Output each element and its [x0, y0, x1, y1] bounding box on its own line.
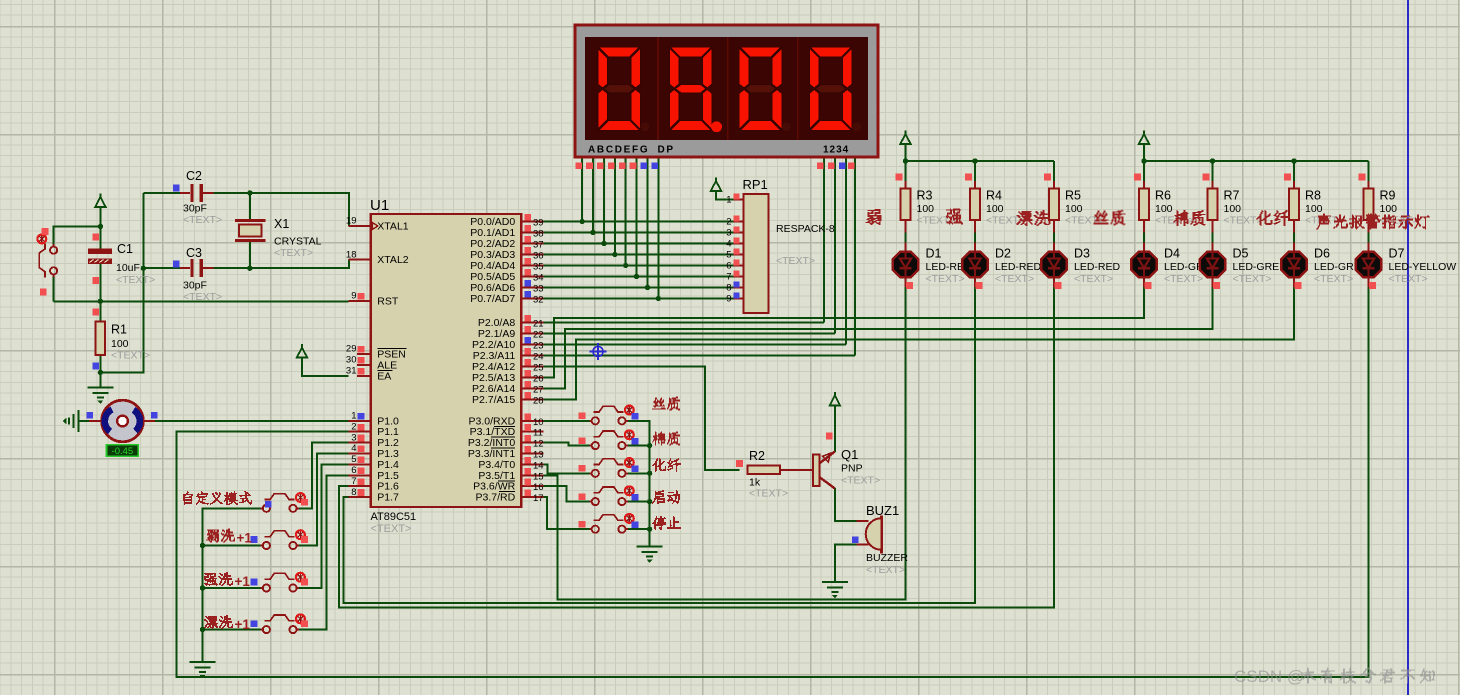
- svg-text:<TEXT>: <TEXT>: [111, 350, 150, 362]
- U1 pin 31 EA: [346, 366, 392, 383]
- svg-text:28: 28: [533, 395, 544, 406]
- wire display segment B column to P0.1 row: [592, 157, 594, 233]
- svg-text:2: 2: [726, 217, 731, 228]
- button 棉质 pin state squares: [579, 437, 586, 444]
- svg-text:<TEXT>: <TEXT>: [841, 475, 880, 487]
- ground below buzzer: [822, 582, 848, 598]
- wire display segment C column to P0.2 row: [603, 157, 605, 244]
- wire D3 cathode to U1 P1.6: [339, 287, 1054, 607]
- svg-text:1: 1: [351, 411, 356, 422]
- svg-text:<TEXT>: <TEXT>: [1224, 215, 1263, 227]
- display segment pin state squares: [575, 162, 854, 169]
- wire R4 bottom to D2 anode: [974, 230, 976, 244]
- svg-text:R7: R7: [1224, 189, 1240, 203]
- svg-text:RP1: RP1: [743, 177, 768, 192]
- svg-text:3: 3: [351, 432, 356, 443]
- U1 pin 39 P0.0/AD0: [470, 214, 543, 229]
- wire display digit 1 column to P2.0: [823, 157, 825, 322]
- D2 pin state square: [976, 282, 983, 289]
- wire U1 P0.1 row to RP1 pin 3: [543, 232, 733, 234]
- watermark CSDN: [1234, 667, 1435, 686]
- R4 pin state square: [965, 174, 972, 181]
- U1 pin 35 P0.4/AD4: [470, 258, 543, 273]
- svg-text:16: 16: [533, 482, 544, 493]
- U1 pin 6 P1.5: [349, 465, 400, 482]
- wire U1 P0.6 row to RP1 pin 8: [543, 287, 733, 289]
- BUZ1 pin state square: [852, 536, 859, 543]
- LED D3 LED-RED: [1041, 243, 1066, 287]
- svg-text:D2: D2: [995, 247, 1011, 261]
- U1 pin 14 P3.4/T0: [478, 457, 543, 472]
- svg-text:100: 100: [111, 338, 129, 350]
- Q1 pin state square: [826, 433, 833, 440]
- svg-text:17: 17: [533, 493, 544, 504]
- resistor R4 100: [970, 188, 980, 220]
- wire U1 P3.0 to silk button: [543, 420, 591, 422]
- LED D4 LED-GREEN: [1131, 243, 1156, 287]
- svg-text:+1: +1: [235, 617, 251, 632]
- svg-text:<TEXT>: <TEXT>: [1233, 273, 1272, 285]
- resistor R3 100 leads: [905, 181, 907, 188]
- wire display segment E column to P0.4 row: [625, 157, 627, 266]
- U1 pin 30 ALE: [346, 355, 397, 372]
- wire VCC to Q1 emitter: [834, 406, 836, 453]
- resistor R1 100: [96, 322, 106, 356]
- svg-text:D3: D3: [1074, 247, 1090, 261]
- svg-text:26: 26: [533, 373, 544, 384]
- wire button right terminal to rail: [626, 501, 650, 503]
- label 漂洗: [1017, 210, 1051, 226]
- resistor R8 100 leads: [1293, 181, 1295, 188]
- power flag VCC (Q1 emitter): [830, 392, 840, 406]
- svg-text:AT89C51: AT89C51: [371, 511, 417, 523]
- U1 pin 34 P0.5/AD5: [470, 269, 543, 284]
- U1 pin 1 P1.0: [349, 411, 400, 428]
- wire crystal X1 bottom: [249, 242, 251, 269]
- svg-text:P3.7/RD: P3.7/RD: [476, 492, 516, 504]
- svg-text:32: 32: [533, 295, 544, 306]
- R6 pin state square: [1134, 174, 1141, 181]
- power flag VCC (RP1): [711, 177, 721, 191]
- svg-text:U1: U1: [370, 197, 389, 214]
- wire U1 P2.6 to D5 cathode: [543, 287, 1212, 388]
- wire ground to motor left: [79, 420, 90, 422]
- U1 pin 29 PSEN: [346, 344, 406, 361]
- wire VCC rail for R3 R4 R5: [906, 145, 1055, 162]
- U1 pin 38 P0.1/AD1: [470, 225, 543, 240]
- svg-text:6: 6: [726, 261, 731, 272]
- R9 pin state square: [1359, 174, 1366, 181]
- wire P2.0 row: [543, 321, 824, 323]
- svg-text:8: 8: [351, 487, 356, 498]
- wire weak-wash button left to rail: [203, 545, 263, 547]
- wire U1 P0.3 row to RP1 pin 5: [543, 254, 733, 256]
- RP1 pin 1: [726, 194, 743, 206]
- U1 pin 21 P2.0/A8: [478, 315, 544, 330]
- RP1 pin 9: [726, 292, 743, 304]
- RP1 pin 2: [726, 215, 743, 227]
- wire display segment DP column to P0.7 row: [657, 157, 659, 299]
- display digit 1 showing 0: [598, 47, 650, 131]
- button 漂洗+1 pin state squares: [301, 620, 308, 627]
- wire display segment A column to P0.0 row: [581, 157, 583, 222]
- svg-text:P0.7/AD7: P0.7/AD7: [470, 293, 515, 305]
- svg-text:100: 100: [917, 203, 935, 215]
- buzzer BUZ1: [857, 516, 882, 554]
- U1 pin 36 P0.3/AD3: [470, 247, 543, 262]
- svg-text:<TEXT>: <TEXT>: [1314, 273, 1353, 285]
- R2 pin state square: [736, 460, 743, 467]
- U1 pin 18 XTAL2: [346, 249, 409, 266]
- U1 pin 27 P2.6/A14: [472, 381, 544, 396]
- wire U1 P1.5 to rinse button: [297, 475, 349, 629]
- RP1 pin 5: [726, 248, 743, 260]
- U1 pin 2 P1.1: [349, 421, 400, 438]
- wire reset button bottom to RST net: [53, 275, 55, 302]
- wire C2/C3 ground return: [100, 193, 143, 373]
- svg-text:<TEXT>: <TEXT>: [917, 215, 956, 227]
- label 停止: [652, 516, 681, 530]
- wire VCC to reset-button/C1 node: [99, 207, 101, 227]
- sheet border (blue): [1407, 0, 1409, 695]
- svg-text:23: 23: [533, 340, 544, 351]
- U1 pin 9 RST: [349, 291, 399, 308]
- component RP1 resistor pack RESPACK-8: [743, 194, 768, 313]
- svg-text:35: 35: [533, 262, 544, 273]
- svg-text:+1: +1: [235, 574, 251, 589]
- U1 pin 24 P2.3/A11: [473, 348, 544, 363]
- wire rail drop to R4: [974, 161, 976, 188]
- U1 pin 19 XTAL1: [346, 216, 409, 233]
- R7 pin state square: [1203, 174, 1210, 181]
- LED D5 LED-GREEN: [1200, 243, 1225, 287]
- svg-text:2: 2: [351, 421, 356, 432]
- U1 pin 10 P3.0/RXD: [469, 413, 544, 428]
- svg-text:<TEXT>: <TEXT>: [183, 214, 222, 226]
- wire RST junction to R1 top: [99, 301, 101, 321]
- svg-text:<TEXT>: <TEXT>: [926, 273, 965, 285]
- svg-text:DP: DP: [658, 145, 675, 156]
- svg-text:25: 25: [533, 362, 544, 373]
- label 弱: [866, 209, 882, 225]
- wire C3 right to XTAL2: [214, 260, 349, 269]
- push button 弱洗+1: [260, 531, 299, 549]
- motor pin state squares: [86, 412, 93, 419]
- wire P2.2 row: [543, 343, 846, 345]
- U1 pin 22 P2.1/A9: [478, 326, 544, 341]
- display digit 3 showing 0: [739, 47, 791, 131]
- label 棉质: [1174, 210, 1206, 226]
- svg-text:C3: C3: [186, 246, 202, 260]
- svg-text:100: 100: [1224, 203, 1242, 215]
- resistor R5 100: [1049, 188, 1059, 220]
- svg-text:100: 100: [986, 203, 1004, 215]
- wire C2 right to XTAL1: [214, 193, 349, 226]
- U1 pin 7 P1.6: [349, 476, 400, 493]
- svg-text:9: 9: [726, 294, 731, 305]
- svg-text:18: 18: [346, 249, 357, 260]
- display digit 4 showing 0: [809, 47, 861, 131]
- svg-text:<TEXT>: <TEXT>: [776, 255, 815, 267]
- wire U1 P1.4 to strong-wash button: [297, 464, 349, 588]
- svg-text:27: 27: [533, 384, 544, 395]
- svg-text:CRYSTAL: CRYSTAL: [274, 236, 322, 248]
- R5 pin state square: [1044, 174, 1051, 181]
- push button 自定义模式: [260, 494, 299, 512]
- svg-text:21: 21: [533, 318, 544, 329]
- button 停止 pin state squares: [579, 521, 586, 528]
- svg-text:R1: R1: [111, 323, 127, 337]
- label 漂洗+1: [204, 615, 233, 629]
- svg-text:100: 100: [1065, 203, 1083, 215]
- resistor R9 100 leads: [1368, 181, 1370, 188]
- button 丝质 pin state squares: [579, 413, 586, 420]
- capacitor C2 30pF: [180, 184, 214, 202]
- svg-text:3: 3: [726, 228, 731, 239]
- wire D2 cathode to U1 P1.7: [344, 287, 975, 603]
- LED D6 LED-GREEN: [1281, 243, 1306, 287]
- wire U1 P3.6 to start button: [543, 486, 591, 501]
- push button 强洗+1: [260, 573, 299, 591]
- svg-text:XTAL1: XTAL1: [377, 221, 408, 233]
- wire R7 bottom to D5 anode: [1212, 230, 1214, 244]
- D6 pin state square: [1295, 282, 1302, 289]
- svg-text:PNP: PNP: [841, 463, 863, 475]
- svg-text:11: 11: [533, 428, 543, 439]
- svg-text:EA: EA: [377, 371, 391, 383]
- wire C3 left: [143, 267, 180, 269]
- svg-text:LED-YELLOW: LED-YELLOW: [1389, 261, 1457, 273]
- wire display segment D column to P0.3 row: [614, 157, 616, 255]
- svg-text:+1: +1: [237, 530, 253, 545]
- U1 pin 26 P2.5/A13: [472, 370, 544, 385]
- wire button right terminal to rail: [626, 528, 650, 530]
- svg-text:29: 29: [346, 344, 357, 355]
- wire R1 bottom to ground node: [99, 355, 101, 387]
- resistor R4 100 leads: [974, 181, 976, 188]
- svg-text:R6: R6: [1155, 189, 1171, 203]
- display digit 2 showing 8: [669, 47, 722, 132]
- wire U1 P0.5 row to RP1 pin 7: [543, 276, 733, 278]
- D5 pin state square: [1213, 282, 1220, 289]
- svg-text:<TEXT>: <TEXT>: [371, 523, 412, 535]
- RP1 pin 6: [726, 259, 743, 271]
- U1 pin 28 P2.7/A15: [472, 392, 544, 407]
- svg-text:RESPACK-8: RESPACK-8: [776, 223, 835, 235]
- wire R3 bottom to D1 anode: [905, 230, 907, 244]
- U1 pin 15 P3.5/T1: [478, 468, 543, 483]
- U1 pin 33 P0.6/AD6: [470, 280, 543, 295]
- resistor R3 100: [901, 188, 911, 220]
- button 自定义模式 pin state squares: [301, 499, 308, 506]
- svg-text:7: 7: [351, 476, 356, 487]
- wire Q1 collector to buzzer: [835, 488, 857, 521]
- svg-text:12: 12: [533, 439, 544, 450]
- button 化纤 pin state squares: [579, 465, 586, 472]
- svg-text:C2: C2: [186, 169, 202, 183]
- wire R6 bottom to D4 anode: [1143, 230, 1145, 244]
- wire P2.1 row: [543, 332, 835, 334]
- wire U1 P3.7 to stop button: [543, 497, 591, 529]
- svg-text:36: 36: [533, 251, 544, 262]
- svg-text:30pF: 30pF: [183, 203, 207, 215]
- svg-text:<TEXT>: <TEXT>: [1074, 273, 1113, 285]
- wire D1 cathode to U1 P3.5: [543, 287, 905, 600]
- wire U1 P0.2 row to RP1 pin 4: [543, 243, 733, 245]
- D4 pin state square: [1145, 282, 1152, 289]
- U1 pin 4 P1.3: [349, 443, 400, 460]
- label 丝质: [1094, 210, 1126, 226]
- svg-text:5: 5: [351, 454, 356, 465]
- U1 pin 32 P0.7/AD7: [470, 291, 543, 306]
- wire C1 bottom to RST net junction: [99, 264, 101, 302]
- svg-text:30: 30: [346, 355, 357, 366]
- wire middle buttons common rail to ground: [626, 421, 650, 547]
- U1 pin 13 P3.3/INT1: [468, 446, 544, 461]
- RP1 pin 8: [726, 281, 743, 293]
- svg-text:7: 7: [726, 272, 731, 283]
- power flag VCC (R3-R5 rail): [900, 131, 910, 145]
- svg-text:39: 39: [533, 218, 544, 229]
- svg-text:D4: D4: [1164, 247, 1180, 261]
- wire rail drop to resistor at x=1294: [1293, 161, 1295, 188]
- capacitor C1 10uF electrolytic: [88, 249, 111, 264]
- svg-text:24: 24: [533, 351, 544, 362]
- U1 pin 12 P3.2/INT0: [468, 435, 544, 450]
- svg-text:1234: 1234: [823, 145, 849, 156]
- motor rpm readout -0.45: [107, 445, 139, 456]
- ground below left buttons: [190, 662, 216, 678]
- wire VCC to RP1 pin 1: [716, 191, 734, 200]
- label 丝质: [652, 397, 680, 411]
- label 启动: [652, 490, 680, 504]
- svg-text:19: 19: [346, 216, 357, 227]
- label 强: [946, 209, 963, 225]
- wire button right terminal to rail: [626, 472, 650, 474]
- wire display digit 4 column to P2.3: [854, 157, 856, 355]
- push button 停止: [589, 515, 628, 533]
- label 化纤: [1257, 210, 1290, 226]
- svg-text:<TEXT>: <TEXT>: [1389, 273, 1428, 285]
- wire VCC rail for R6 R7 R8 R9: [1144, 145, 1369, 162]
- reset button pin squares: [42, 228, 49, 235]
- wire motor right to U1 P1.0: [155, 420, 349, 422]
- wire display digit 3 column to P2.2: [845, 157, 847, 344]
- svg-text:15: 15: [533, 471, 544, 482]
- svg-text:BUZZER: BUZZER: [866, 552, 908, 564]
- resistor R5 100 leads: [1053, 181, 1055, 188]
- svg-text:5: 5: [726, 250, 731, 261]
- svg-text:<TEXT>: <TEXT>: [274, 247, 313, 259]
- wire rail drop to resistor at x=1212.5: [1212, 161, 1214, 188]
- svg-text:P2.7/A15: P2.7/A15: [472, 394, 515, 406]
- wire rail drop to R5: [1053, 161, 1055, 188]
- wire U1 P3.4 to fiber button: [543, 464, 591, 473]
- wire U1 P3.2 to cotton button: [543, 443, 591, 446]
- ground below R1: [87, 388, 113, 404]
- wire U1 P0.4 row to RP1 pin 6: [543, 265, 733, 267]
- wire U1 P2.7 to D6 cathode: [543, 287, 1294, 399]
- wire display segment G column to P0.6 row: [646, 157, 648, 288]
- resistor R7 100 leads: [1212, 181, 1214, 188]
- wire buzzer return to ground: [835, 545, 857, 582]
- reset push button: [39, 243, 57, 277]
- svg-text:<TEXT>: <TEXT>: [116, 274, 155, 286]
- resistor R6 100 leads: [1143, 181, 1145, 188]
- D7 pin state square: [1369, 282, 1376, 289]
- wire node A to C1 top: [99, 227, 101, 250]
- svg-text:<TEXT>: <TEXT>: [183, 291, 222, 303]
- wire display digit 2 column to P2.1: [834, 157, 836, 333]
- wire R5 bottom to D3 anode: [1053, 230, 1055, 244]
- svg-text:4: 4: [351, 443, 356, 454]
- label 自定义模式: [183, 491, 252, 505]
- RP1 pin 3: [726, 226, 743, 238]
- svg-text:ABCDEFG: ABCDEFG: [588, 145, 649, 156]
- push button 丝质: [589, 406, 628, 424]
- C3 pin state square: [173, 261, 180, 268]
- label 棉质: [652, 431, 680, 445]
- wire U1 P0.7 row to RP1 pin 9: [543, 298, 733, 300]
- svg-text:9: 9: [351, 291, 356, 302]
- label 化纤: [652, 458, 681, 472]
- svg-text:6: 6: [351, 465, 356, 476]
- LED D1 LED-RED: [893, 243, 918, 287]
- wire C2 left: [143, 192, 180, 194]
- svg-text:D1: D1: [926, 247, 942, 261]
- U1 pin 5 P1.4: [349, 454, 400, 471]
- resistor R8 100: [1289, 188, 1299, 220]
- U1 pin 3 P1.2: [349, 432, 400, 449]
- svg-text:37: 37: [533, 240, 544, 251]
- wire U1 P2.4 to R2: [543, 366, 739, 470]
- svg-text:31: 31: [346, 366, 357, 377]
- wire button right terminal to rail: [626, 445, 650, 447]
- wire RST net to U1 pin 9: [54, 300, 349, 302]
- label 声光报警指示灯: [1316, 214, 1430, 230]
- svg-text:R8: R8: [1305, 189, 1321, 203]
- component DS1 4-digit seven segment display frame: [575, 25, 878, 157]
- U1 pin 16 P3.6/WR: [473, 479, 543, 494]
- wire rail drop to resistor at x=1144: [1143, 161, 1145, 188]
- U1 pin 17 P3.7/RD: [476, 490, 544, 505]
- resistor R7 100: [1208, 188, 1218, 220]
- svg-text:R9: R9: [1380, 189, 1396, 203]
- button 强洗+1 pin state squares: [301, 579, 308, 586]
- svg-text:P1.7: P1.7: [377, 492, 399, 504]
- power flag VCC (EA pin): [297, 344, 307, 358]
- svg-text:D7: D7: [1389, 247, 1405, 261]
- svg-text:8: 8: [726, 283, 731, 294]
- C2 pin state square: [173, 185, 180, 192]
- svg-text:<TEXT>: <TEXT>: [866, 564, 905, 576]
- svg-text:LED-RED: LED-RED: [1074, 261, 1121, 273]
- svg-text:22: 22: [533, 329, 544, 340]
- svg-text:1: 1: [726, 195, 731, 206]
- svg-text:100: 100: [1380, 203, 1398, 215]
- svg-text:D6: D6: [1314, 247, 1330, 261]
- U1 pin 23 P2.2/A10: [472, 337, 544, 352]
- wire P2.3 row: [543, 354, 855, 356]
- wire strong-wash button left to rail: [203, 587, 263, 589]
- U1 pin 8 P1.7: [349, 487, 400, 504]
- svg-text:38: 38: [533, 229, 544, 240]
- origin marker: [590, 343, 607, 360]
- svg-text:100: 100: [1155, 203, 1173, 215]
- svg-text:RST: RST: [377, 296, 399, 308]
- wire U1 P1.3 to weak-wash button: [297, 454, 349, 546]
- R3 pin state square: [896, 174, 903, 181]
